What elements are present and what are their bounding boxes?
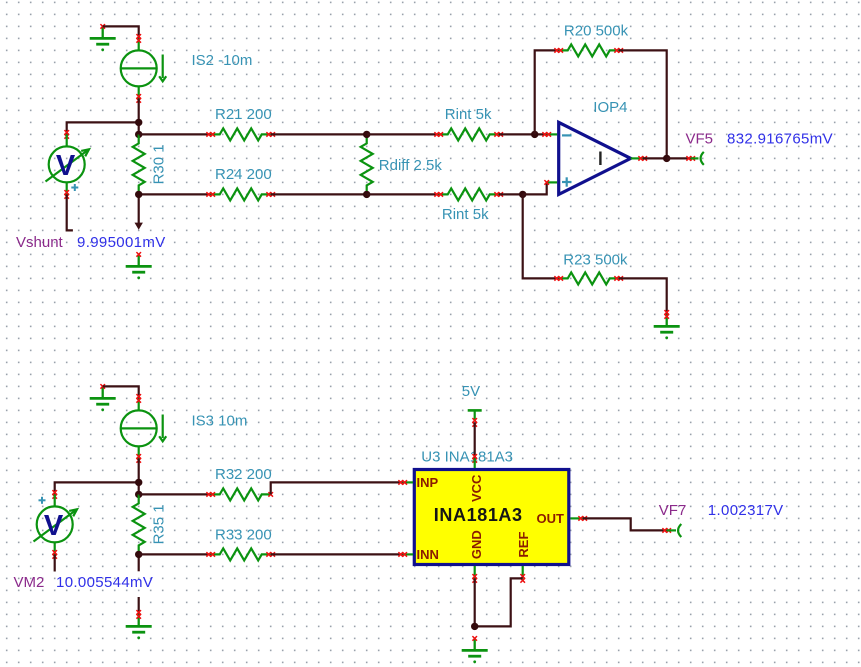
pin VCC <box>469 458 484 502</box>
value VF5 832.916765mV <box>727 131 833 148</box>
wire voltmeter Vshunt negative end <box>67 194 73 230</box>
svg-text:5V: 5V <box>462 383 480 400</box>
svg-text:R24 200: R24 200 <box>215 166 272 183</box>
label IS2 -10m <box>192 52 253 69</box>
wire R23 to ground <box>619 278 667 314</box>
svg-text:IS3 10m: IS3 10m <box>192 413 248 430</box>
voltmeter Vshunt <box>46 130 90 199</box>
label R20 500k <box>564 23 629 40</box>
wire ground to IS3 top <box>103 386 139 398</box>
voltage pin VF5 terminal <box>686 152 703 165</box>
svg-text:R33 200: R33 200 <box>215 527 272 544</box>
svg-text:R30 1: R30 1 <box>151 144 168 184</box>
wire R33 to INN pin <box>271 553 403 555</box>
label VM2 <box>14 574 45 591</box>
svg-text:GND: GND <box>469 530 484 559</box>
svg-text:R32 200: R32 200 <box>215 466 272 483</box>
node E junction (Rdiff bottom) <box>363 191 370 198</box>
pin OUT <box>537 511 588 526</box>
current source IS2 <box>121 34 167 103</box>
label R33 200 <box>215 527 272 544</box>
svg-text:V: V <box>56 150 76 182</box>
svg-text:V: V <box>44 510 64 542</box>
svg-text:OUT: OUT <box>537 511 565 526</box>
wire node K to R32 <box>139 493 211 495</box>
svg-text:VCC: VCC <box>469 474 484 502</box>
wire node B to R21 <box>139 133 211 135</box>
wire feedback right leg <box>619 50 667 158</box>
node H junction (output) <box>663 155 670 162</box>
pin INN <box>398 547 438 562</box>
svg-text:1.002317V: 1.002317V <box>708 502 784 519</box>
wire node L down to ground <box>138 554 140 614</box>
label Rdiff 2.5k <box>379 157 443 174</box>
svg-text:Rint 5k: Rint 5k <box>442 206 489 223</box>
label IOP4 <box>593 99 627 116</box>
wire node G to R23 <box>523 194 559 278</box>
wire node L to R33 <box>139 553 211 555</box>
ground (left, IS3 rail) <box>90 384 116 411</box>
svg-text:IS2 -10m: IS2 -10m <box>192 52 253 69</box>
node F junction (inverting input) <box>531 131 538 138</box>
svg-text:VF5: VF5 <box>686 131 714 148</box>
node K junction <box>135 491 142 498</box>
node A junction <box>135 119 142 126</box>
pin INP <box>398 475 438 490</box>
wire 5V to VCC pin <box>472 422 477 462</box>
resistor R30 <box>133 134 145 194</box>
wire node A to voltmeter <box>67 122 139 134</box>
wire node J to voltmeter VM2 <box>55 482 139 494</box>
node L junction <box>135 551 142 558</box>
svg-text:R23 500k: R23 500k <box>563 251 628 268</box>
ground (below R23) <box>654 310 680 339</box>
svg-text:VM2: VM2 <box>14 574 45 591</box>
IC U3 INA181A3 body <box>414 470 569 565</box>
pin GND <box>469 530 484 582</box>
ground (below Vshunt value) <box>126 252 152 279</box>
resistor R23 <box>554 272 623 284</box>
svg-text:9.995001mV: 9.995001mV <box>77 234 166 251</box>
svg-text:Rint 5k: Rint 5k <box>445 106 492 123</box>
pin REF <box>516 532 531 583</box>
wire Rint lower to node G <box>499 193 523 195</box>
ground (below VM2 value) <box>126 610 152 639</box>
wire R24 to Rdiff bottom node <box>271 193 367 195</box>
label R35 1 <box>151 504 168 544</box>
svg-text:INP: INP <box>417 475 439 490</box>
resistor R33 <box>206 548 275 560</box>
resistor R21 <box>206 128 275 140</box>
resistor R20 <box>554 44 623 56</box>
label Rint 5k upper <box>445 106 492 123</box>
label R24 200 <box>215 166 272 183</box>
svg-text:IOP4: IOP4 <box>593 99 627 116</box>
resistor Rdiff <box>361 134 373 194</box>
node C junction <box>135 191 142 198</box>
wire ground to IS2 top <box>103 26 139 38</box>
wire REF pin to node M <box>475 578 523 626</box>
wire GND pin to node M <box>474 578 476 626</box>
value Vshunt 9.995001mV <box>77 234 166 251</box>
wire Rint upper to inverting input <box>499 133 547 135</box>
svg-text:R35 1: R35 1 <box>151 504 168 544</box>
wire IS3 to node J <box>138 458 140 494</box>
voltmeter VM2 <box>34 490 78 559</box>
value VM2 10.005544mV <box>56 574 153 591</box>
label R21 200 <box>215 106 272 123</box>
wire Rdiff bottom to Rint lower <box>367 193 439 195</box>
svg-text:832.916765mV: 832.916765mV <box>727 131 833 148</box>
wire node G to non-inverting input <box>523 182 547 194</box>
label U3 INA181A3 <box>421 448 513 465</box>
label IS3 10m <box>192 413 248 430</box>
label Vshunt <box>16 234 64 251</box>
wire op-amp output to node H <box>643 157 667 159</box>
label R23 500k <box>563 251 628 268</box>
value VF7 1.002317V <box>708 502 784 519</box>
svg-text:INN: INN <box>417 547 439 562</box>
svg-text:Vshunt: Vshunt <box>16 234 64 251</box>
wire node B down with probe arrow <box>135 194 143 229</box>
svg-text:VF7: VF7 <box>659 502 687 519</box>
wire node C to R24 <box>139 193 211 195</box>
label R32 200 <box>215 466 272 483</box>
wire feedback left leg <box>535 50 559 134</box>
svg-text:R21 200: R21 200 <box>215 106 272 123</box>
svg-text:U3 INA181A3: U3 INA181A3 <box>421 448 513 465</box>
node B junction <box>135 131 142 138</box>
op-amp IOP4 <box>542 122 647 194</box>
resistor R24 <box>206 188 275 200</box>
node D junction (Rdiff top) <box>363 131 370 138</box>
resistor R35 <box>133 494 145 554</box>
power rail 5V symbol <box>468 410 482 426</box>
label VF5 <box>686 131 714 148</box>
resistor Rint upper <box>434 128 503 140</box>
svg-text:Rdiff 2.5k: Rdiff 2.5k <box>379 157 443 174</box>
wire Rdiff top to Rint upper <box>367 133 439 135</box>
wire R21 to Rdiff top node <box>271 133 367 135</box>
resistor R32 <box>206 488 273 500</box>
wire voltmeter VM2 negative end <box>54 554 56 571</box>
ground (top-left, IS2 positive rail) <box>90 24 116 51</box>
label R30 1 <box>151 144 168 184</box>
node M junction <box>471 623 478 630</box>
svg-text:REF: REF <box>516 532 531 558</box>
resistor Rint lower <box>434 188 503 200</box>
wire IS2 to node A <box>138 98 140 134</box>
label Rint 5k lower <box>442 206 489 223</box>
svg-text:10.005544mV: 10.005544mV <box>56 574 153 591</box>
node J junction <box>135 479 142 486</box>
wire node H to VF5 pin <box>667 157 691 159</box>
ground (below IC) <box>462 636 488 663</box>
label 5V <box>462 383 480 400</box>
node G junction (non-inverting branch) <box>519 191 526 198</box>
voltage pin VF7 terminal <box>662 524 681 537</box>
current source IS3 <box>121 394 167 463</box>
wire OUT to VF7 pin <box>583 518 667 530</box>
svg-text:R20 500k: R20 500k <box>564 23 629 40</box>
svg-text:INA181A3: INA181A3 <box>434 505 523 525</box>
wire R32 to INP pin <box>271 482 403 494</box>
label VF7 <box>659 502 687 519</box>
